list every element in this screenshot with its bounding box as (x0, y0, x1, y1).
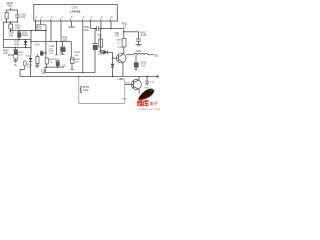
transistor VT02 base wire (125, 83, 134, 86)
svg-text:C015: C015 (27, 64, 33, 66)
diode VD02 stem (111, 58, 114, 64)
capacitor C0N8 plate (60, 45, 65, 48)
IC U1 pin 9 tick (109, 19, 111, 21)
node junction L (18, 39, 20, 41)
svg-text:C010: C010 (98, 51, 104, 53)
capacitor C003 stub (16, 10, 19, 15)
diode VD02 bottom stub (111, 67, 114, 76)
transistor VT01 circle (116, 53, 126, 63)
wire cap C009 right lead (99, 27, 124, 30)
svg-text:4.7u: 4.7u (150, 82, 155, 84)
svg-text:R0N1: R0N1 (116, 40, 122, 42)
diode VD01 out lead (108, 51, 113, 54)
wire x124 vertical (123, 79, 126, 104)
diode VD003 triangle (29, 58, 32, 62)
node junction D (110, 28, 112, 30)
svg-text:C006: C006 (22, 33, 28, 35)
svg-text:C17: C17 (62, 64, 67, 67)
svg-text:SP0N: SP0N (83, 86, 90, 89)
IC U1 pin 2 tick (39, 19, 41, 21)
capacitor C008 outline (14, 54, 18, 59)
node junction G (62, 41, 64, 43)
capacitor C017 plate (56, 59, 60, 62)
wire y38.5 (3, 38, 31, 41)
wire r017 down (45, 64, 48, 68)
terminal B+ ellipse (23, 61, 26, 66)
node junction B3 (45, 52, 47, 54)
svg-text:R0M: R0M (63, 37, 68, 39)
wire bottom loop (79, 102, 125, 105)
wire pin1 drop (34, 21, 37, 31)
node junction Q (57, 66, 59, 68)
wire pin2 drop (39, 21, 42, 25)
IC U1 pin 6 tick (81, 19, 83, 21)
svg-text:{: { (80, 85, 83, 94)
svg-text:10M: 10M (9, 35, 14, 37)
capacitor C017 stub (56, 66, 59, 67)
node junction J2 (10, 21, 12, 23)
capacitor C008 body (14, 50, 18, 55)
svg-text:47/25: 47/25 (98, 54, 104, 56)
capacitor C010 plate (92, 42, 97, 45)
diode VD01 lead (101, 51, 104, 54)
wire pin9 drop (109, 21, 112, 29)
capacitor C008 top stub (14, 48, 17, 50)
svg-text:C017: C017 (54, 58, 60, 60)
wire vertical x122 (122, 29, 125, 39)
wire C1N5 top lead (134, 55, 137, 63)
diode VD02 triangle (111, 64, 115, 67)
resistor R013 body (122, 39, 126, 48)
diode VD001 bar (24, 43, 28, 46)
svg-text:0.15: 0.15 (141, 66, 146, 68)
capacitor C008 stem (14, 58, 17, 60)
wire x71 down (70, 42, 73, 58)
node junction C006-top (18, 30, 19, 31)
svg-text:100M: 100M (22, 35, 28, 37)
wire c019 foot (70, 68, 74, 71)
svg-text:L0N1: L0N1 (136, 51, 142, 53)
capacitor C0N5 body (134, 62, 139, 67)
svg-text:SP01: SP01 (8, 55, 14, 57)
wire y47 (3, 46, 31, 49)
wire pin8 drop (99, 21, 102, 29)
capacitor C0N0 stub (43, 51, 46, 54)
svg-text:C0N8: C0N8 (49, 46, 55, 48)
capacitor C006 top stub (17, 31, 20, 33)
transistor VT02 collector (134, 80, 140, 83)
wire x112 down to base (111, 52, 114, 58)
diode VD001 triangle (24, 41, 28, 44)
node junction J (6, 21, 8, 23)
diode VD003 bar (29, 60, 32, 63)
node junction S (146, 76, 148, 78)
node junction N (15, 47, 17, 49)
node junction VD01-in (100, 52, 101, 53)
capacitor C014 plates (136, 37, 141, 40)
node base junction (112, 57, 114, 59)
capacitor C008 plate (14, 48, 18, 51)
svg-text:C018: C018 (41, 70, 47, 72)
svg-text:R0N1: R0N1 (74, 59, 80, 61)
resistor R001 body (5, 12, 8, 19)
capacitor C021 plates (145, 80, 149, 83)
wire r002 bottom lead (9, 29, 12, 31)
ground bar pin5 (69, 25, 75, 29)
logo swoosh dark (138, 89, 154, 100)
node junction E (123, 31, 125, 33)
wire vd003 down (29, 62, 32, 77)
svg-text:0.5W: 0.5W (83, 89, 89, 92)
wire cap C009 left lead (91, 27, 97, 30)
wire upper rail (45, 71, 95, 74)
transistor VT01 emitter (119, 60, 123, 63)
IC U1 pin 8 tick (99, 19, 101, 21)
wire pin6 long drop (81, 21, 84, 73)
wire sb05 down (9, 8, 12, 10)
svg-text:C007: C007 (14, 42, 20, 44)
resistor R016 body (36, 57, 39, 64)
resistor R002 body (9, 24, 13, 29)
node junction O (25, 47, 27, 49)
resistor R016 stub (36, 54, 39, 56)
svg-text:47°C: 47°C (150, 90, 156, 93)
node junction M (25, 39, 27, 41)
IC U1 pin 1 tick (34, 19, 36, 21)
svg-text:4700: 4700 (83, 29, 89, 32)
wire lower rail (20, 75, 157, 78)
wire B+ route (23, 66, 26, 69)
capacitor C0N8 stub (61, 42, 64, 47)
transistor VT02 base bar (132, 81, 136, 88)
svg-text:C0N: C0N (59, 52, 64, 54)
wire x138 down (137, 32, 140, 39)
wire coil out (148, 53, 155, 56)
wire branch y31 (124, 30, 139, 33)
diode VD001 stem (24, 40, 27, 48)
logo swoosh tail (138, 93, 154, 100)
transistor VT02 circle (131, 80, 141, 90)
wire C010 bottom lead (93, 50, 96, 73)
capacitor C0N8 bar (61, 53, 65, 56)
wire R052 right chain (44, 30, 47, 58)
wire stub x30 down (29, 31, 32, 42)
wire pin3 drop (49, 21, 52, 42)
capacitor C0N8 bottom stub (61, 51, 64, 54)
svg-text:LA4505: LA4505 (70, 10, 81, 14)
resistor R017 body (45, 58, 48, 64)
wire x30 down (29, 40, 32, 55)
wire speaker drop (77, 77, 80, 104)
capacitor C006 stub (17, 37, 20, 40)
IC U1 pin 4 tick (59, 19, 61, 21)
diode VD02 bar (111, 66, 115, 69)
svg-text:1M: 1M (42, 73, 45, 75)
svg-text:0.1M: 0.1M (141, 35, 146, 37)
wire pin5 stub (70, 21, 73, 27)
node junction P (46, 66, 48, 68)
wire left rail (2, 22, 5, 48)
resistor R012 body (99, 39, 103, 47)
capacitor C006 plate (17, 30, 21, 33)
node junction K (17, 21, 19, 23)
wire x56 down (55, 42, 58, 55)
wire resistor to VT collector (122, 47, 125, 54)
wire c019 down (70, 63, 73, 69)
svg-text:47M: 47M (14, 44, 19, 46)
svg-text:R013: R013 (18, 52, 24, 54)
node junction pin6 (82, 72, 84, 74)
node junction B2 (45, 30, 47, 32)
transistor VT02 emitter (134, 87, 140, 90)
capacitor C0N8 body (60, 48, 65, 52)
wire pin7 drop (89, 21, 92, 29)
wire upper bus y30 (11, 29, 46, 32)
capacitor C017 body (56, 61, 60, 66)
wire y41 bus (31, 40, 71, 43)
transistor VT01 base wire (113, 56, 119, 59)
capacitor C003 bottom stub (16, 17, 19, 22)
svg-text:B+: B+ (15, 64, 19, 67)
wire pin4 drop (59, 21, 62, 42)
node junction A2 (30, 30, 32, 32)
wire cap C014 bottom stub (137, 41, 140, 44)
wire VT01 to coil (126, 53, 133, 56)
capacitor C0N0 plate (40, 50, 43, 53)
wire x56 foot (55, 54, 58, 57)
svg-text:R012: R012 (97, 34, 103, 36)
wire r001 top lead (5, 10, 8, 12)
capacitor C003 plates (15, 13, 20, 16)
svg-text:-1.5V: -1.5V (34, 44, 40, 47)
node junction C010-top (94, 28, 96, 30)
IC U1 pin 3 tick (49, 19, 51, 21)
svg-text:C2073: C2073 (117, 47, 124, 49)
wire y21.5 (3, 20, 17, 23)
ground symbol left (13, 59, 17, 62)
capacitor C010 body (93, 45, 98, 50)
svg-text:0.01: 0.01 (21, 16, 26, 19)
op-amp IC U1 LA4505 body (34, 5, 118, 22)
diode VD003 stem (29, 55, 32, 58)
svg-text:R0N8: R0N8 (74, 52, 80, 54)
diode VD01 triangle (104, 50, 108, 54)
svg-text:R0NC: R0NC (140, 32, 147, 34)
IC U1 pin 5 tick (69, 19, 71, 21)
capacitor C0N5 stub (134, 67, 137, 70)
svg-text:C0N: C0N (120, 79, 125, 81)
svg-text:R0N5: R0N5 (121, 98, 127, 100)
capacitor C0N0 body (40, 52, 43, 56)
wire r002 top lead (9, 22, 12, 24)
svg-text:电子: 电子 (150, 100, 158, 106)
node junction VD02-foot (112, 76, 113, 77)
svg-text:R009: R009 (3, 50, 9, 52)
diode VD01 bar (106, 50, 109, 54)
wire C0N5 foot (134, 68, 137, 71)
node junction A (35, 30, 37, 32)
node junction A3 (30, 41, 32, 43)
inductor L0N1 coil (134, 53, 138, 54)
svg-text:SB-05: SB-05 (6, 2, 13, 5)
ground symbol right (136, 43, 142, 46)
node junction r002 (10, 30, 12, 32)
IC U1 pin 7 tick (89, 19, 91, 21)
resistor R052 body (37, 25, 46, 31)
node junction R (78, 76, 80, 78)
wire pin8 long drop (99, 29, 102, 53)
wire C010 top lead (93, 29, 96, 44)
svg-text:C0N: C0N (114, 33, 119, 35)
svg-text:C005: C005 (8, 33, 14, 35)
svg-text:C1N5: C1N5 (140, 63, 147, 65)
svg-text:7805: 7805 (7, 5, 13, 8)
transistor VT01 base bar (117, 55, 121, 62)
node junction F (56, 41, 58, 43)
wire corner to upper rail (43, 67, 46, 72)
wire top loop (6, 8, 17, 11)
wire x146 stub (146, 77, 149, 82)
capacitor C019 plate (71, 58, 74, 60)
transistor VT01 collector (120, 54, 124, 57)
svg-text:C0N0: C0N0 (48, 50, 54, 52)
resistor R016 stem (36, 63, 39, 65)
ground symbol mid (35, 64, 40, 67)
terminal right lower (156, 75, 158, 77)
capacitor C006 body (17, 33, 21, 38)
capacitor C019 body (71, 58, 75, 64)
svg-text:1.8: 1.8 (123, 25, 127, 28)
node junction C (100, 28, 102, 30)
wire r001 down (5, 18, 8, 22)
capacitor C009 plates (95, 26, 98, 31)
wire y67.6 (45, 65, 64, 68)
svg-text:2.2k: 2.2k (15, 27, 20, 30)
